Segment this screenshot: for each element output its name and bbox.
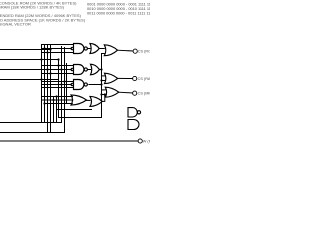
junction J16 [100,68,102,70]
OR gate U6 (row1 second) [104,45,117,56]
OR gate U9 (row3) [105,87,119,97]
output terminal CS1 [133,49,137,53]
wire: control riser N [64,48,66,133]
junction J6 [40,78,42,80]
junction J9 [57,64,59,66]
svg-text:CS (RAM): CS (RAM) [138,77,150,81]
junction J18 [100,79,102,81]
wire: OR5 output to CS3 circle [119,91,133,94]
svg-text:CS (MMIO): CS (MMIO) [138,92,150,96]
wire: enable horizontal y117.5 [59,117,102,119]
memory map list text (left, clipped) [0,0,86,26]
wire: NAND3 output to enable vertical [89,84,102,86]
junction J12 [60,83,62,85]
wire: enable vertical x101.5 [101,54,103,118]
wire: bottom input y122.5 from left [0,122,62,124]
junction J2 [40,58,42,60]
wire: OR4 input taps [42,96,73,98]
junction J13 [55,95,57,97]
junction J19 [100,93,102,95]
wire: OR3 lower input from enable [102,80,105,82]
junction J7 [43,47,45,49]
wire: OR1a output to OR1b [99,48,104,50]
wire: OR1b lower input from enable vertical [102,53,105,55]
wire: control riser L [58,60,60,118]
wire: short riser J [53,97,55,123]
wire: OR5 lower input from enable [102,94,106,96]
wire: address bus vertical A14 [44,45,46,123]
wire: control riser O [66,64,68,104]
wire: OR3 top input stub [102,75,105,77]
junction dots [40,47,106,104]
junction J3 [57,58,59,60]
junction J8 [46,51,48,53]
output terminal CS3 [133,91,137,95]
junction J5 [60,68,62,70]
wire: NAND1 output to OR1a [88,48,90,50]
wire: OR5 top input stub [102,89,106,91]
junction J4 [46,68,48,70]
legend AND symbol [128,120,139,130]
wire: OR3 output to CS2 circle [118,77,133,79]
junction J10 [49,72,51,74]
wire: address bus vertical A12 [50,45,52,133]
wire: control riser M [61,47,63,123]
svg-text:W (R/W): W (R/W) [143,139,150,143]
junction J11 [63,80,65,82]
junction J17 [100,83,102,85]
svg-text:0011 0000 0000 0000 - 0011 111: 0011 0000 0000 0000 - 0011 1111 1111 111… [87,10,150,15]
junction J15 [43,102,45,104]
wire: OR1b output to CS1 circle [118,49,134,52]
wire: OR2 output to enable vertical [100,69,102,71]
output terminal W [138,139,142,143]
wire: address bus vertical A13 [47,45,49,133]
legend NAND symbol [128,108,141,117]
junction J14 [52,99,54,101]
wire: short riser K [56,97,58,123]
OR gate U7 (row2) [91,64,100,75]
output terminal CS2 [133,76,137,80]
junction J1 [49,48,51,50]
wire: OR4b lower input from riser J [57,109,92,111]
wire: OR4b output riser up to OR5 lower line [102,95,105,102]
wire: input line y59.5 from left [0,59,59,61]
NAND gate U2 [71,65,87,75]
wire: NAND3 input taps [42,81,74,83]
address range text (top right, clipped) [87,1,164,15]
svg-text:CS (ROM): CS (ROM) [138,50,150,54]
wire: R/W line y141.5 from left [0,140,138,142]
wire: address bus vertical A15 [41,45,43,123]
wire: input line y79.5 from left [0,79,59,81]
wire: input line y49.5 from left [0,49,51,51]
OR gate U4 (row4 first) [71,95,87,105]
svg-text:ST SRAM (18K WORDS / 128K BYTE: ST SRAM (18K WORDS / 128K BYTES) [0,5,65,10]
NAND gate U1 [71,44,87,54]
OR gate U5 (row1 first) [90,44,99,54]
wire: input line y69.5 from left (row2 mid input) [0,69,71,71]
svg-text:AD SIGNAL VECTOR: AD SIGNAL VECTOR [0,22,31,27]
wire: OR4 output to OR4b [87,99,91,101]
wire: NAND1 input taps [42,44,74,46]
OR gate U8 (row2b) [105,73,118,83]
wire: NAND2 output to OR2 [88,69,91,71]
OR gate U4b (row4 second) [90,96,102,106]
output labels [138,50,158,144]
NAND gate U3 [71,80,87,90]
wire: bottom input y132.5 from left [0,132,65,134]
junction J20 [104,93,106,95]
wire: NAND2 input taps [42,65,74,67]
